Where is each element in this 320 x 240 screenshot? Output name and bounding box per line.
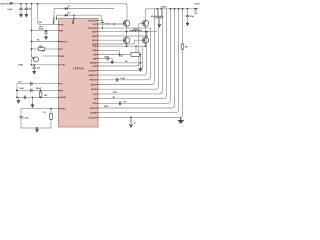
svg-text:SYNC: SYNC xyxy=(104,106,109,108)
potentiometer U2 circle with arrow on CTRL xyxy=(33,57,38,62)
svg-text:10µH: 10µH xyxy=(133,28,138,30)
wire right bus FBOUT row xyxy=(98,28,150,80)
wire left bus1 vertical xyxy=(31,4,33,55)
svg-text:CSPOUT: CSPOUT xyxy=(88,70,97,72)
svg-text:CSN: CSN xyxy=(92,50,97,52)
wire Q2 gate riser from cascade row xyxy=(139,23,143,66)
svg-text:0.005Ω: 0.005Ω xyxy=(161,6,167,8)
wire right bus SS row xyxy=(98,9,166,99)
wire SW1 row xyxy=(98,31,157,33)
ground power stage sense xyxy=(140,67,142,68)
wire right bus CSNOUT row xyxy=(98,32,146,75)
node dot for input cap C2 xyxy=(25,3,27,5)
capacitor C12 series on CLKOUT row xyxy=(116,78,118,82)
ground for C1 xyxy=(20,13,22,14)
wire RT loop top to IC xyxy=(21,108,59,110)
svg-text:CTRL: CTRL xyxy=(60,65,66,67)
wire pin row y49 with resistor R1 xyxy=(31,48,33,50)
svg-text:10k: 10k xyxy=(125,61,128,63)
wire Q1 source to SW1 xyxy=(126,26,128,31)
wire VIN rail corner down to Q1 drain xyxy=(125,4,127,20)
svg-text:MODE: MODE xyxy=(90,113,96,115)
resistor R2 vertical comp xyxy=(40,90,42,92)
svg-text:3mΩ: 3mΩ xyxy=(118,55,123,57)
svg-text:CTRL: CTRL xyxy=(18,64,24,66)
wire Q4 drain to SW2 xyxy=(145,32,147,37)
U1 right pin stubs xyxy=(97,20,99,117)
wire right bus CLKOUT row xyxy=(98,9,183,118)
transistor Q1 top-left switch xyxy=(123,20,129,26)
wire Q3 drain to SW1 xyxy=(126,32,128,37)
node dot rail to bus2 xyxy=(37,3,39,5)
wire Q2 drain to VOUT rail xyxy=(146,9,148,20)
capacitor C6 series comp2 xyxy=(30,89,32,93)
transistor Q3 bottom-left switch xyxy=(123,37,129,43)
capacitor C9 boost 1 xyxy=(102,20,103,21)
ground for C4 xyxy=(45,35,47,36)
node dot SW1 xyxy=(126,31,128,33)
wire hook to IC top pin INTVCC xyxy=(73,15,75,18)
wire right bus SRVO row xyxy=(98,9,154,85)
svg-text:SW2: SW2 xyxy=(92,36,96,38)
ground for C3 xyxy=(33,70,35,71)
wire Q3 source to sense line xyxy=(126,43,128,46)
node dot aux tap on VOUT rail xyxy=(182,8,184,10)
svg-text:LT8705: LT8705 xyxy=(73,66,84,70)
resistor R1 box xyxy=(38,48,44,51)
svg-text:2.2µF: 2.2µF xyxy=(104,56,108,58)
svg-text:INTVCC: INTVCC xyxy=(60,41,68,43)
wire VIN rail xyxy=(11,3,128,5)
svg-text:35.7k: 35.7k xyxy=(113,92,118,94)
wire EN/UVLO pin row xyxy=(31,30,33,32)
ground for C10 xyxy=(158,23,160,24)
svg-text:BOOST2: BOOST2 xyxy=(88,28,96,30)
node dots output cap pair xyxy=(156,8,158,10)
wire ISN row xyxy=(98,62,141,64)
capacitor C1 input xyxy=(20,4,22,8)
wire Q4 source to sense line xyxy=(145,43,147,46)
op-amp U1 LT8705 controller IC body xyxy=(59,19,99,128)
svg-text:SYNC: SYNC xyxy=(60,109,66,111)
svg-text:BG1: BG1 xyxy=(92,40,96,42)
node dot loop top right xyxy=(50,108,52,110)
wire right bus VC2 row xyxy=(98,9,162,94)
wire BST2 row y28.1 xyxy=(98,27,152,29)
node dot comp3 left xyxy=(16,96,18,98)
capacitor C11 output right xyxy=(187,8,189,10)
wire comp row 2 xyxy=(17,89,59,91)
wire ISP row to sense resistor xyxy=(98,54,131,56)
resistor R3 loop right leg xyxy=(50,114,53,120)
node dot sense tap left on VOUT rail xyxy=(170,8,172,10)
capacitor C8 loop left leg xyxy=(19,116,22,118)
svg-text:4x: 4x xyxy=(134,121,136,124)
svg-text:RT2: RT2 xyxy=(93,103,97,105)
wire FET common source sense line xyxy=(98,45,146,47)
ground comp right xyxy=(32,97,34,103)
svg-text:VOUT: VOUT xyxy=(194,3,200,5)
ground loop bottom xyxy=(36,127,38,129)
wire bus2 vertical to VIN pin xyxy=(38,4,59,25)
wire GND row ground drop xyxy=(130,117,132,119)
svg-text:0.1µF: 0.1µF xyxy=(23,118,29,120)
wire diode row 1 xyxy=(54,8,114,10)
diode D1 xyxy=(65,7,68,10)
capacitor C7 series comp3 xyxy=(23,96,25,100)
ground chassis on bottom row xyxy=(178,117,184,122)
diode D2 xyxy=(65,14,68,17)
transistor Q2 top-right switch xyxy=(142,20,148,26)
svg-text:SYNC2: SYNC2 xyxy=(90,108,96,110)
wire comp left vertical xyxy=(16,84,18,98)
resistor R4 current sense box xyxy=(131,53,140,57)
resistor R5 feedback divider on vertical xyxy=(181,44,184,49)
wire comp row 1 VC xyxy=(17,83,59,85)
svg-text:SGND: SGND xyxy=(60,97,66,99)
svg-text:TG2: TG2 xyxy=(92,66,96,68)
wire riser x101.2 to BST pin xyxy=(100,15,102,20)
capacitor C5 series comp1 xyxy=(30,82,32,86)
svg-text:IMON: IMON xyxy=(91,89,97,91)
node VOUT output arrow xyxy=(195,8,199,10)
wire CTRL to IC xyxy=(32,64,59,66)
capacitor C2 input xyxy=(25,4,27,8)
wire INTVCC2 row y58.6 xyxy=(98,58,107,60)
svg-text:1M: 1M xyxy=(185,47,188,49)
wire comp row 3 xyxy=(17,96,59,98)
wire bus1 below circle xyxy=(31,59,33,65)
wire BG1 gate pin row to Q3 gate xyxy=(98,39,123,41)
svg-text:D2: D2 xyxy=(68,13,70,15)
U1 top pin stubs xyxy=(54,17,74,19)
svg-text:CLKOUT: CLKOUT xyxy=(88,117,97,119)
wire Q2 gate cascade row corner xyxy=(98,63,139,66)
wire sense resistor right to ground node xyxy=(140,55,141,68)
node dot for input cap C1 xyxy=(20,3,22,5)
ground arrow for IC GND pin xyxy=(129,124,132,127)
ground for C11 xyxy=(187,22,189,23)
wire right bus IMON row xyxy=(98,9,158,89)
ground comp left xyxy=(17,97,19,99)
inductor L1 between SW1 and SW2 xyxy=(130,30,142,32)
svg-text:TG1: TG1 xyxy=(92,24,96,26)
wire sense tap down xyxy=(135,46,137,52)
transistor Q4 bottom-right switch xyxy=(142,37,148,43)
svg-text:BOOST1: BOOST1 xyxy=(88,20,96,22)
wire RT loop rectangle xyxy=(21,109,51,128)
svg-text:SW1: SW1 xyxy=(92,32,96,34)
capacitor C10 output pair left xyxy=(156,9,158,16)
IC top pin name labels xyxy=(53,20,55,24)
svg-text:ISMON: ISMON xyxy=(90,63,97,65)
node dot FB tap on VOUT rail xyxy=(178,8,180,10)
U1 left pin stubs xyxy=(59,24,61,108)
ground for C14 xyxy=(111,59,113,62)
wire Q2 source to SW2 xyxy=(145,26,147,31)
svg-text:2.2µF: 2.2µF xyxy=(7,9,13,11)
wire reference pin y56 xyxy=(43,55,59,57)
wire BG2 pin row to Q4 gate xyxy=(98,40,142,44)
node dot sense tap right on VOUT rail xyxy=(174,8,176,10)
wire right bus MODE row xyxy=(98,9,179,113)
wire right pin row y36 to bus joint xyxy=(98,35,147,37)
capacitor C3 on CTRL node xyxy=(33,65,35,67)
svg-text:VC2: VC2 xyxy=(92,94,96,96)
wire riser from IC top to diode wire 2 xyxy=(56,15,58,18)
wire right bus RT2 row xyxy=(98,9,171,104)
wire BST pin row y20.4 xyxy=(98,19,101,21)
node dot rail to bus1 xyxy=(31,3,33,5)
wire diode row 2 xyxy=(57,14,102,16)
capacitor C14 series on row 58.6 xyxy=(106,57,108,61)
node dot SW2 xyxy=(145,31,147,33)
wire right pin row y50.3 short sense kelvin xyxy=(98,50,120,54)
capacitor C4 INTVCC bypass xyxy=(45,30,47,31)
ground for C2 xyxy=(25,13,27,14)
node dot CTRL wire xyxy=(31,64,33,66)
capacitor C13 series on MODE row xyxy=(118,102,120,106)
wire VOUT rail xyxy=(146,8,198,10)
svg-text:SRVO: SRVO xyxy=(91,84,97,86)
VIN input arrow xyxy=(10,2,14,5)
wire C14 to ground xyxy=(108,59,112,61)
wire right bus SYNC2 row xyxy=(98,9,175,108)
svg-text:FBOUT: FBOUT xyxy=(90,80,97,82)
wire TG1 gate pin row to Q1 gate xyxy=(98,23,123,25)
wire right bus CSPOUT row xyxy=(98,46,142,70)
svg-text:CSNOUT: CSNOUT xyxy=(88,75,97,77)
wire pin row y41.5 xyxy=(31,41,33,43)
svg-text:D1: D1 xyxy=(68,6,70,8)
node dot SW2 bus joint xyxy=(146,31,148,33)
wire riser from IC top to diode wire 1 xyxy=(53,9,55,19)
svg-text:4.7µF: 4.7µF xyxy=(39,28,45,31)
